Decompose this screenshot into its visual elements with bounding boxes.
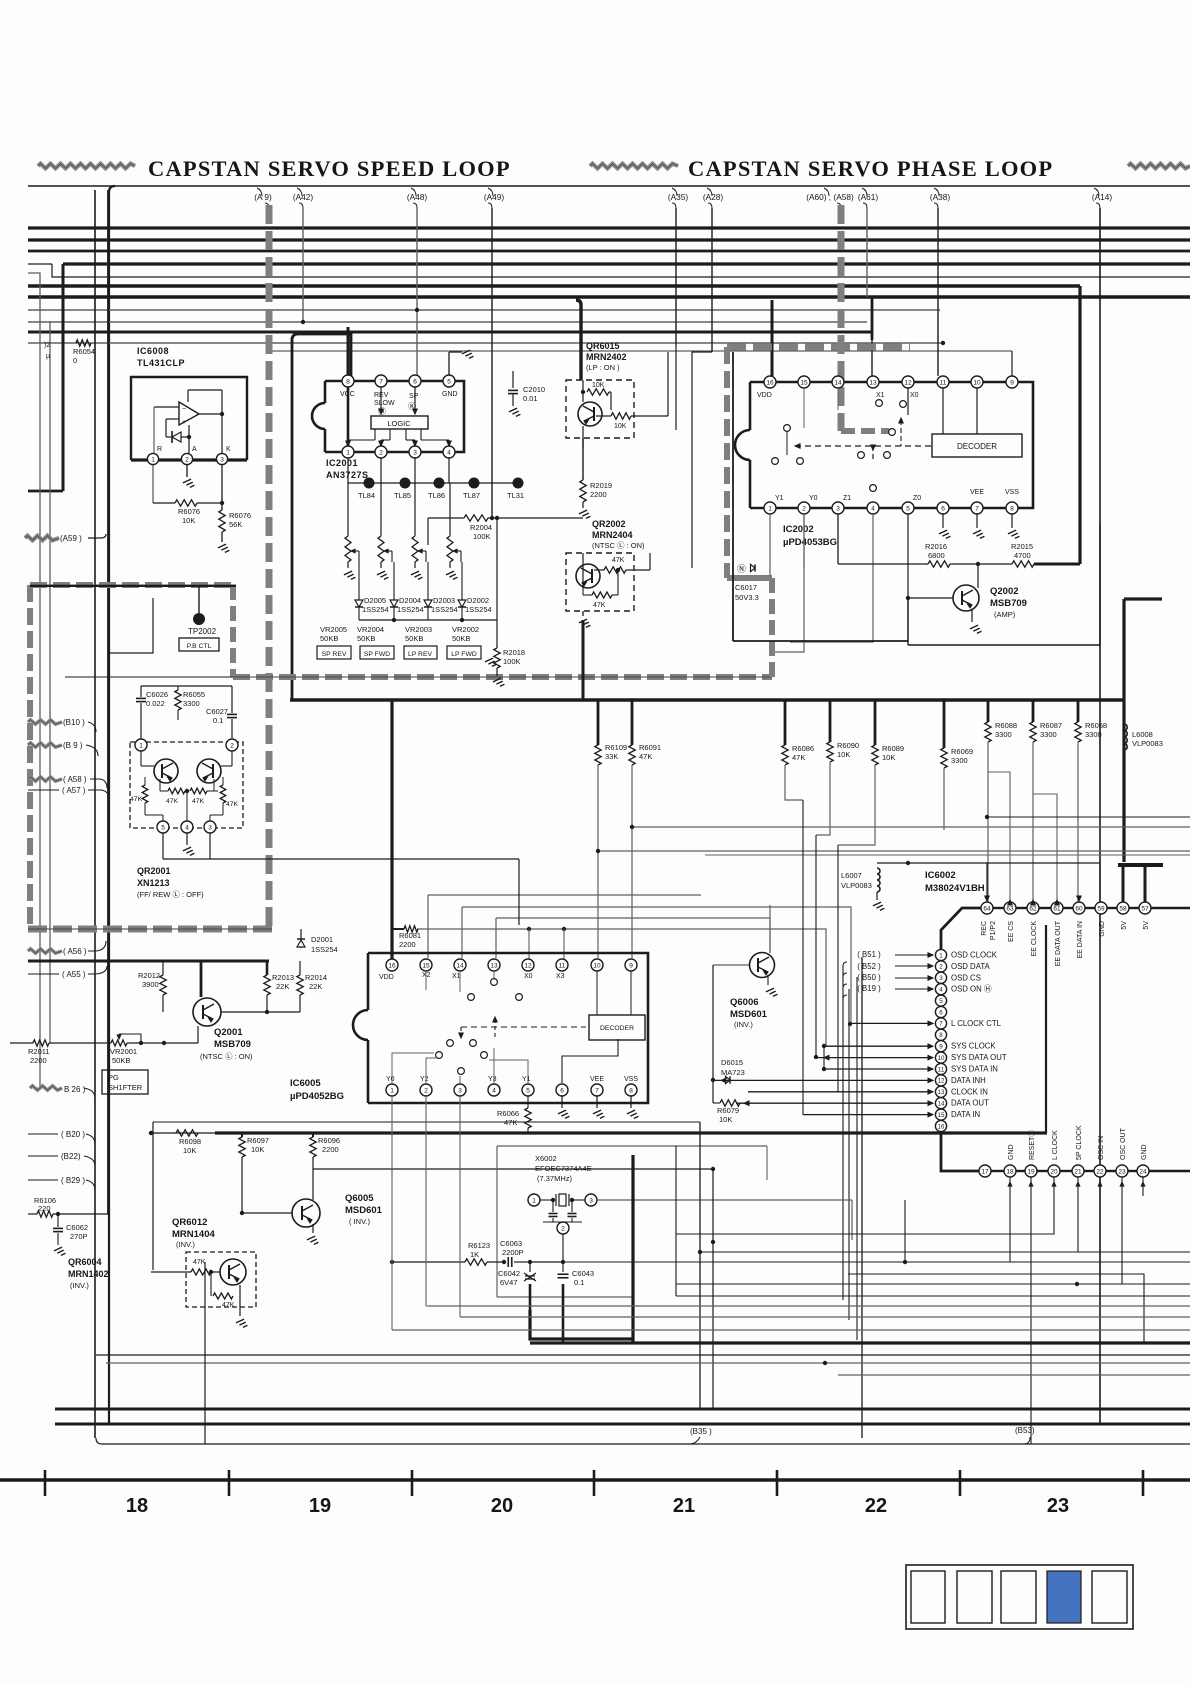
svg-text:D2004: D2004 (399, 596, 421, 605)
ground under pot (377, 571, 385, 575)
svg-text:47K: 47K (226, 801, 239, 808)
svg-text:47K: 47K (192, 798, 205, 805)
Q2002 emitter ground (971, 609, 973, 622)
svg-text:(A60) , (A58): (A60) , (A58) (806, 192, 854, 202)
svg-text:9: 9 (939, 1044, 943, 1051)
hatched shield A60-A58 vertical x841 (838, 205, 845, 431)
mesh line y895 from IC6005 pin15 (428, 895, 701, 958)
svg-text:0: 0 (73, 356, 77, 365)
svg-text:2200: 2200 (322, 1145, 339, 1154)
mesh line y817 partial (987, 816, 1190, 818)
QR2002 dashed box (566, 553, 634, 611)
legend cell 5 (1092, 1571, 1127, 1623)
mode box SP REV (317, 646, 351, 659)
wire A14 long vertical (1099, 208, 1101, 1424)
DECODER box IC2002 (932, 434, 1022, 457)
svg-text:GND: GND (442, 391, 458, 398)
QR2001 pin 1 (135, 739, 147, 751)
svg-text:CAPSTAN SERVO SPEED LOOP: CAPSTAN SERVO SPEED LOOP (148, 156, 511, 181)
svg-text:59: 59 (1097, 905, 1105, 912)
svg-text:15: 15 (938, 1112, 945, 1119)
bus line 12 gray (266, 350, 1012, 352)
svg-text:(A42): (A42) (293, 192, 314, 202)
IC2001 chip outline (348, 381, 464, 452)
svg-text:R6097: R6097 (247, 1136, 269, 1145)
transistor QR6015 (578, 402, 602, 426)
svg-text:6: 6 (939, 1009, 943, 1016)
svg-text:(NTSC Ⓛ : ON): (NTSC Ⓛ : ON) (200, 1052, 253, 1061)
resistor 10K lower (596, 415, 611, 417)
capacitor C6026 0.022 (140, 686, 142, 697)
decoder bottom wire to pin6 (562, 1039, 618, 1083)
svg-text:57: 57 (1141, 905, 1149, 912)
svg-text:Y2: Y2 (420, 1076, 429, 1083)
pin2 wire down (562, 1234, 564, 1262)
mesh line y1262 right (1010, 1261, 1190, 1263)
potentiometer VR2004 (378, 536, 384, 562)
svg-text:TL85: TL85 (394, 491, 411, 500)
svg-text:µPD4053BG: µPD4053BG (783, 537, 837, 548)
svg-text:10K: 10K (614, 423, 627, 430)
svg-text:MSB709: MSB709 (214, 1039, 251, 1050)
resistor R6097 10K (241, 1133, 243, 1137)
svg-text:1K: 1K (470, 1250, 479, 1259)
mesh line y1284 (676, 1283, 1190, 1285)
wire jog to pin61 (1033, 794, 1057, 903)
svg-text:Y0: Y0 (809, 495, 818, 502)
left thick vertical x63 (62, 264, 65, 491)
PG SHIFTER box (102, 1070, 148, 1094)
svg-text:LOGIC: LOGIC (387, 419, 411, 428)
svg-text:2: 2 (939, 964, 943, 971)
B bundle vertical x857 (856, 977, 858, 1340)
svg-text:1: 1 (139, 742, 143, 749)
svg-text:QR2002: QR2002 (592, 519, 626, 529)
svg-text:VR2002: VR2002 (452, 625, 479, 634)
svg-text:X6002: X6002 (535, 1154, 557, 1163)
svg-text:TL431CLP: TL431CLP (137, 358, 185, 368)
svg-text:12: 12 (904, 379, 912, 386)
left B stubs upper (28, 720, 62, 724)
IC6005 internal dashed lines (461, 1026, 586, 1028)
svg-text:CLOCK IN: CLOCK IN (951, 1087, 988, 1096)
svg-text:VR2003: VR2003 (405, 625, 432, 634)
svg-text:11: 11 (559, 962, 566, 969)
svg-text:X1: X1 (876, 392, 885, 399)
svg-text:21: 21 (1074, 1168, 1082, 1175)
B22 stub (28, 1155, 58, 1157)
mesh wire pin23 (848, 1196, 1100, 1274)
vertical thick x583 from QR2002 to bus (582, 620, 585, 700)
IC6008 box (131, 377, 247, 460)
svg-text:R2016: R2016 (925, 542, 947, 551)
svg-text:VR2001: VR2001 (110, 1047, 137, 1056)
wire pin4 down gray (790, 514, 873, 642)
wire pin3 down to R2016 (837, 514, 839, 564)
svg-text:C6042: C6042 (498, 1269, 520, 1278)
svg-text:(B10 ): (B10 ) (63, 718, 85, 727)
QR6012 dashed box (186, 1252, 256, 1307)
mode box LP REV (404, 646, 437, 659)
internal wires IC2002 (786, 431, 788, 455)
thin line y677 left part (65, 676, 233, 678)
wire pin2 down (803, 514, 805, 568)
svg-text:1: 1 (768, 505, 772, 512)
svg-text:2: 2 (230, 742, 234, 749)
wire pin3 down (221, 465, 223, 510)
resistor R6090 10K (829, 700, 832, 742)
bus line 11 gray R6054 line (28, 342, 943, 344)
svg-text:QR6012: QR6012 (172, 1217, 207, 1228)
svg-text:MSD601: MSD601 (345, 1205, 383, 1216)
svg-text:CAPSTAN SERVO PHASE LOOP: CAPSTAN SERVO PHASE LOOP (688, 156, 1053, 181)
svg-text:MRN2402: MRN2402 (586, 352, 627, 362)
IC2001 pin 3 (409, 446, 421, 458)
ground under LP FWD (485, 658, 493, 662)
svg-text:EE DATA IN: EE DATA IN (1077, 921, 1084, 958)
diode row wire (359, 619, 497, 621)
svg-text:MRN1404: MRN1404 (172, 1229, 215, 1240)
svg-text:1SS254: 1SS254 (465, 605, 492, 614)
diode D2002 (458, 600, 466, 607)
Y switch wires (392, 1053, 434, 1083)
mesh line y1252 right (1078, 1251, 1190, 1253)
mode box LP FWD (447, 646, 481, 659)
svg-text:7: 7 (379, 378, 383, 385)
svg-text:17: 17 (981, 1168, 989, 1175)
inductor L6007 VLP0083 (877, 868, 880, 892)
svg-text:OSD CS: OSD CS (951, 973, 981, 982)
svg-text:22: 22 (865, 1495, 887, 1517)
grounds under pins 6 7 8 (942, 514, 944, 528)
svg-text:VEE: VEE (590, 1076, 604, 1083)
svg-text:D6015: D6015 (721, 1058, 743, 1067)
resistor R2018 100K (494, 648, 500, 668)
svg-text:8: 8 (1010, 505, 1014, 512)
Q6005 emitter ground (312, 1224, 314, 1233)
svg-text:1SS254: 1SS254 (311, 945, 338, 954)
left short thick stub y491 (28, 490, 63, 493)
DECODER box IC6005 (589, 1015, 645, 1040)
svg-text:8: 8 (629, 1087, 633, 1094)
resistor R6076 56K (219, 510, 225, 532)
B bundle vertical x843 (842, 966, 844, 1300)
svg-text:19: 19 (309, 1495, 331, 1517)
svg-text:6V47: 6V47 (500, 1278, 518, 1287)
svg-text:8: 8 (939, 1032, 943, 1039)
svg-text:B 26 ): B 26 ) (64, 1085, 86, 1094)
svg-text:9: 9 (629, 962, 633, 969)
svg-text:7: 7 (595, 1087, 599, 1094)
svg-text:3300: 3300 (995, 730, 1012, 739)
svg-text:R2013: R2013 (272, 973, 294, 982)
svg-text:R6089: R6089 (882, 744, 904, 753)
svg-text:( A56 ): ( A56 ) (63, 947, 87, 956)
svg-text:5: 5 (447, 378, 451, 385)
svg-text:50KB: 50KB (357, 634, 375, 643)
svg-text:(INV.): (INV.) (70, 1281, 89, 1290)
QR6015 collector wire thin (582, 426, 584, 448)
svg-text:( B19 ): ( B19 ) (857, 984, 881, 993)
decoder wires from pins 10 9 (596, 971, 598, 1015)
svg-text:P.B CTL: P.B CTL (187, 643, 212, 650)
svg-text:R2011: R2011 (28, 1047, 50, 1056)
svg-text:3: 3 (458, 1087, 462, 1094)
IC6002 top pin row (981, 902, 993, 914)
svg-text:L CLOCK: L CLOCK (1052, 1130, 1059, 1160)
svg-text:47K: 47K (639, 752, 652, 761)
svg-text:DATA IN: DATA IN (951, 1110, 980, 1119)
thick drop to R2013 (266, 961, 269, 975)
svg-text:(B 9 ): (B 9 ) (63, 741, 83, 750)
bus line 3 (28, 250, 1190, 253)
svg-text:22K: 22K (309, 982, 322, 991)
IC6005 chip outline (368, 953, 648, 1103)
svg-text:R2012: R2012 (138, 971, 160, 980)
mesh line y863 with L6007 and pin59 drop (877, 863, 1100, 903)
resistor R6086 47K (784, 700, 787, 745)
svg-text:X1: X1 (452, 973, 461, 980)
svg-text:(A49): (A49) (484, 192, 505, 202)
svg-text:18: 18 (1006, 1168, 1014, 1175)
svg-text:R6055: R6055 (183, 690, 205, 699)
left gray vertical x50 (49, 321, 51, 1043)
svg-text:2: 2 (802, 505, 806, 512)
test point TL87 (469, 478, 480, 489)
svg-text:DECODER: DECODER (600, 1025, 634, 1032)
IC2001 pin 4 (443, 446, 455, 458)
resistor R6079 10K (712, 1080, 714, 1103)
dashed control vertical up arrow (900, 420, 902, 446)
resistor R2014 22K (299, 961, 301, 975)
svg-text:PG: PG (108, 1073, 119, 1082)
svg-text:4700: 4700 (1014, 551, 1031, 560)
mesh wire pin24 (676, 1196, 1122, 1284)
svg-text:(A 9): (A 9) (254, 192, 272, 202)
vertical x676 (675, 1146, 677, 1296)
svg-text:R6066: R6066 (497, 1109, 519, 1118)
QR6012 ground (239, 1285, 241, 1316)
mesh wire pin21 (676, 1196, 1054, 1234)
svg-text:VR2004: VR2004 (357, 625, 384, 634)
svg-text:SP FWD: SP FWD (364, 651, 390, 658)
wire bus to pin16 thick (391, 700, 393, 958)
vertical x1103 lower (1099, 1423, 1101, 1425)
svg-text:X0: X0 (910, 392, 919, 399)
wire thick corner to pin13 (871, 297, 874, 340)
svg-text:2200: 2200 (30, 1056, 47, 1065)
svg-text:10K: 10K (183, 1146, 196, 1155)
svg-text:DECODER: DECODER (957, 442, 997, 451)
gray mesh y1317 (460, 1316, 1190, 1318)
svg-text:10K: 10K (837, 750, 850, 759)
svg-text:56K: 56K (229, 520, 242, 529)
wire pin2 down gray (775, 514, 804, 652)
svg-text:Q6005: Q6005 (345, 1193, 374, 1204)
svg-text:IC2001: IC2001 (326, 458, 358, 468)
connector A59 stub (25, 536, 59, 541)
svg-text:50KB: 50KB (452, 634, 470, 643)
svg-text:R6068: R6068 (1085, 721, 1107, 730)
svg-text:OSD DATA: OSD DATA (951, 962, 990, 971)
svg-text:R6091: R6091 (639, 743, 661, 752)
X6002 enclosure lines (497, 1145, 767, 1147)
QR2002 ground (582, 553, 584, 588)
svg-text:14: 14 (834, 379, 842, 386)
svg-text:)2: )2 (44, 342, 50, 349)
capacitor C6027 0.1 (227, 713, 237, 715)
dashed control line horizontal (795, 445, 932, 447)
resistor R2019 2200 (582, 438, 584, 480)
vertical wires entering IC6002 region (802, 800, 804, 1115)
QR2002 47K resistor lower (582, 588, 584, 595)
svg-text:10K: 10K (251, 1145, 264, 1154)
crystal X6002 pin 2 (557, 1222, 569, 1234)
svg-text:VEE: VEE (970, 489, 984, 496)
svg-text:16: 16 (938, 1123, 945, 1130)
svg-text:5: 5 (906, 505, 910, 512)
svg-text:(A14): (A14) (1092, 192, 1113, 202)
bus line 7 (28, 295, 1190, 298)
resistor R2004 100K (428, 517, 464, 519)
QR2001 resistors 47K x4 (142, 785, 148, 803)
legend cell 3 (1001, 1571, 1036, 1623)
ground under IC6008 pin2 (186, 465, 188, 477)
svg-text:58: 58 (1119, 905, 1127, 912)
resistor R2013 22K (266, 961, 268, 975)
svg-text:( A55 ): ( A55 ) (62, 970, 86, 979)
ground under pot (411, 571, 419, 575)
svg-text:4: 4 (939, 987, 943, 994)
svg-text:R: R (157, 446, 162, 453)
vertical x700 (699, 1122, 701, 1409)
svg-text:EE CLOCK: EE CLOCK (1031, 921, 1038, 957)
B26 stub (30, 1086, 62, 1090)
hatched shield y578 horizontal to C6017 (727, 575, 772, 581)
dots on signal lines (822, 1044, 826, 1048)
IC2002 bottom pins (764, 502, 776, 514)
svg-text:22: 22 (1096, 1168, 1104, 1175)
potentiometer VR2001 50KB (49, 1042, 111, 1044)
svg-text:3300: 3300 (183, 699, 200, 708)
ground under R6076 56K (221, 532, 223, 542)
svg-text:GND: GND (1008, 1144, 1015, 1160)
IC6005 top pins 16-9 (386, 959, 398, 971)
left gray vertical x40 (28, 273, 40, 1088)
svg-text:R6096: R6096 (318, 1136, 340, 1145)
svg-text:62: 62 (1029, 905, 1037, 912)
resistor R6091 47K (631, 700, 634, 745)
svg-text:15: 15 (800, 379, 808, 386)
svg-text:VLP0083: VLP0083 (1132, 739, 1163, 748)
decoder wires to pins 11 10 (942, 388, 944, 434)
transistor Q6006 (750, 953, 775, 978)
svg-text:QR2001: QR2001 (137, 866, 171, 876)
P.B CTL box (179, 638, 219, 651)
vertical x153 wire (152, 1122, 154, 1270)
svg-text:5: 5 (526, 1087, 530, 1094)
test point TL85 (400, 478, 411, 489)
svg-text:REC: REC (981, 921, 988, 936)
svg-text:VSS: VSS (624, 1076, 638, 1083)
svg-text:47K: 47K (612, 557, 625, 564)
svg-text:R2015: R2015 (1011, 542, 1033, 551)
IC6005 bottom pins 1-8 (386, 1084, 398, 1096)
svg-text:OSD ON Ⓗ: OSD ON Ⓗ (951, 985, 992, 994)
pin9 wire up (1011, 351, 1013, 376)
dashed control vertical with arrow (872, 446, 874, 462)
svg-text:−: − (182, 406, 186, 413)
svg-text:50KB: 50KB (320, 634, 338, 643)
svg-text:R2004: R2004 (470, 523, 492, 532)
svg-text:DATA INH: DATA INH (951, 1076, 986, 1085)
svg-text:SP: SP (409, 393, 419, 400)
svg-text:MRN2404: MRN2404 (592, 530, 633, 540)
svg-text:6: 6 (413, 378, 417, 385)
svg-text:MRN1402: MRN1402 (68, 1269, 109, 1279)
svg-text:Ⓝ: Ⓝ (737, 564, 746, 574)
svg-text:12: 12 (524, 962, 532, 969)
thick line y1409 (55, 1408, 1190, 1411)
hatched shield left edge x30 (27, 585, 33, 929)
svg-text:R6079: R6079 (717, 1106, 739, 1115)
resistor R6109 33K (597, 700, 600, 745)
svg-text:(A35): (A35) (668, 192, 689, 202)
svg-text:(INV.): (INV.) (734, 1020, 753, 1029)
svg-text:23: 23 (1047, 1495, 1069, 1517)
svg-text:QR6015: QR6015 (586, 341, 620, 351)
pin wires IC6005 to mesh (426, 1096, 428, 1306)
hatched shield phase-loop left edge x727 (724, 347, 730, 578)
bus line 1 (28, 226, 1190, 229)
line y1355 (96, 1354, 1190, 1356)
main thick bus y700 (290, 698, 1124, 701)
svg-text:4: 4 (492, 1087, 496, 1094)
svg-text:1: 1 (151, 456, 155, 463)
svg-text:Z0: Z0 (913, 495, 921, 502)
svg-text:6: 6 (941, 505, 945, 512)
svg-text:0.01: 0.01 (523, 394, 538, 403)
LOGIC box (371, 416, 428, 429)
hatched shield x772 vertical (769, 578, 775, 680)
svg-text:D2001: D2001 (311, 935, 333, 944)
svg-text:Y1: Y1 (522, 1076, 531, 1083)
svg-text:Q6006: Q6006 (730, 997, 759, 1008)
svg-text:MSD601: MSD601 (730, 1009, 768, 1020)
wire corner left of TP2002 (110, 598, 153, 653)
svg-text:(B22): (B22) (61, 1152, 81, 1161)
svg-text:QR6004: QR6004 (68, 1257, 102, 1267)
svg-text:R6090: R6090 (837, 741, 859, 750)
wire A49 vertical (491, 208, 493, 518)
IC6008 pin 1 R (147, 453, 158, 464)
svg-text:D2002: D2002 (467, 596, 489, 605)
svg-text:Q2001: Q2001 (214, 1027, 243, 1038)
left edge stub lines (0, 263, 63, 265)
diode D2005 (355, 600, 363, 607)
svg-text:3: 3 (836, 505, 840, 512)
wire A28 corner down (692, 352, 712, 568)
bus line 5 thin with step (52, 264, 1190, 277)
svg-text:1SS254: 1SS254 (397, 605, 424, 614)
ground under pot (446, 571, 454, 575)
thick bus y1343 (530, 1341, 1190, 1344)
svg-text:LP FWD: LP FWD (451, 651, 477, 658)
svg-text:µ: µ (46, 353, 50, 360)
svg-text:0.1: 0.1 (574, 1278, 584, 1287)
mesh line y1274 corner (1100, 1274, 1144, 1343)
svg-text:1: 1 (532, 1197, 536, 1204)
